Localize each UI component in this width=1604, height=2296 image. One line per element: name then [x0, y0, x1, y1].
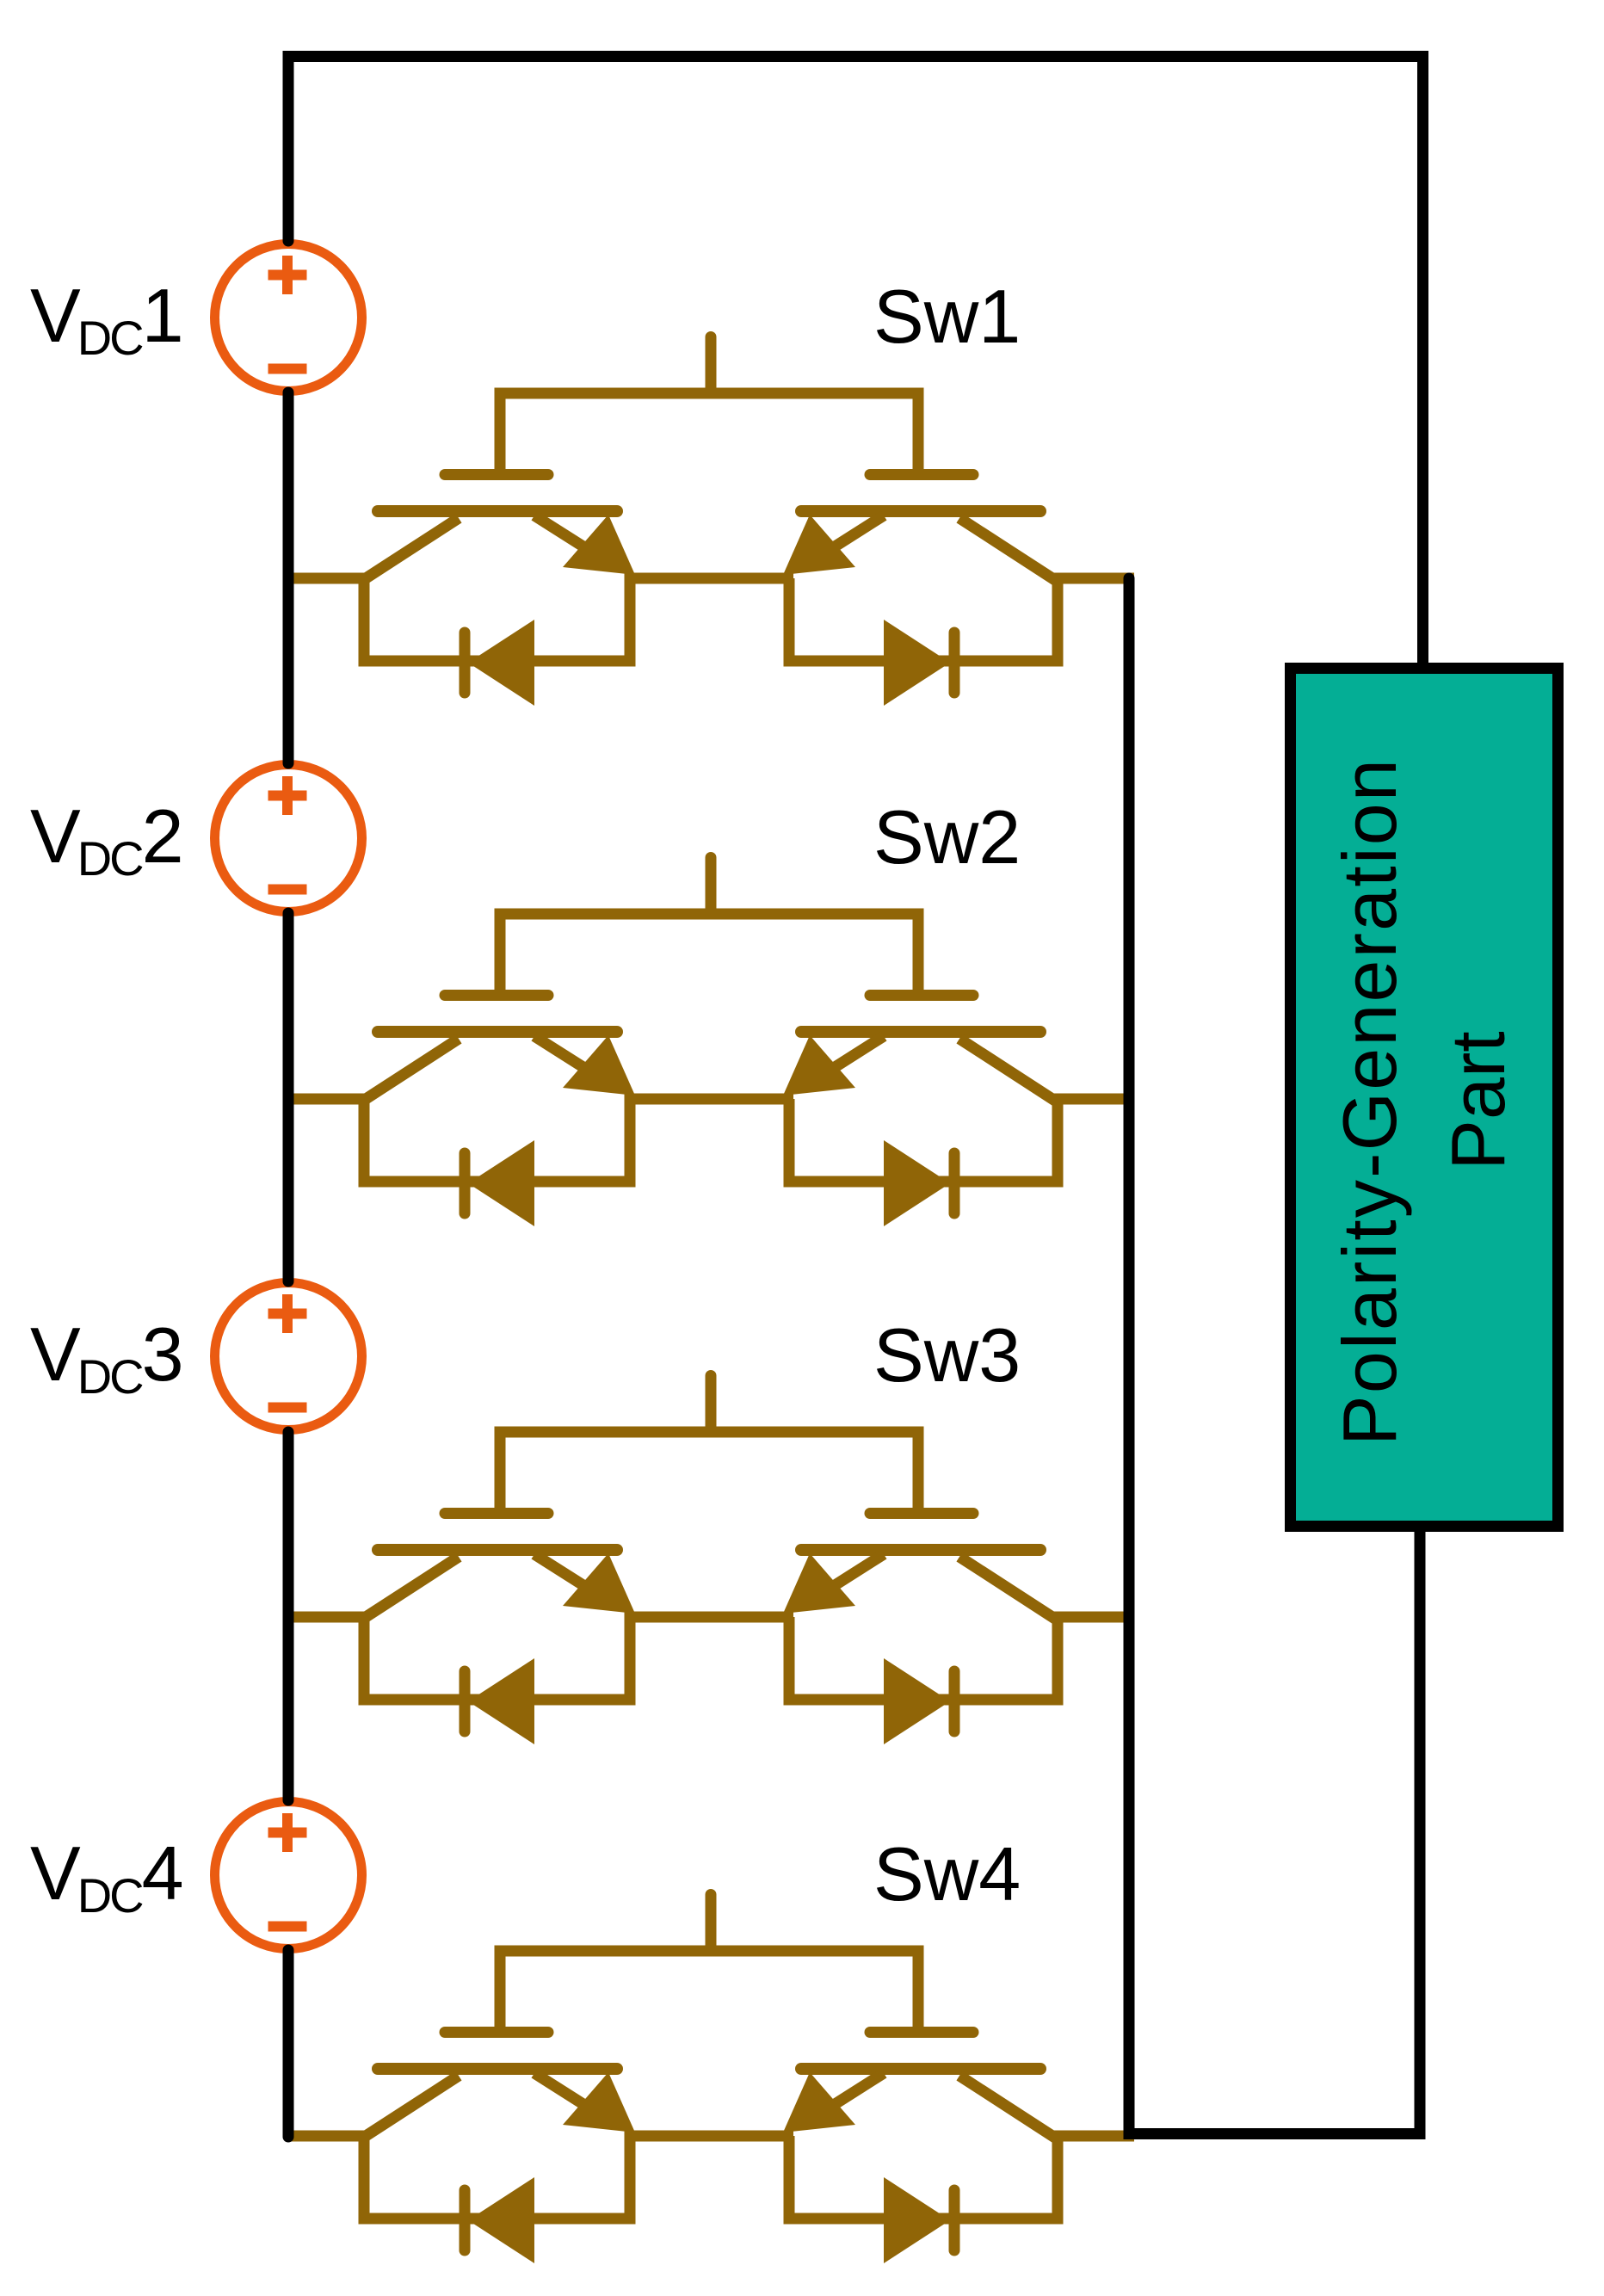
wire: switch output bus down, bottom run, and riser to Polarity box bottom [1129, 578, 1420, 2134]
Sw1 right diode D1b cathode bar [949, 633, 960, 693]
Sw4 left IGBT gate plate [445, 2027, 548, 2038]
Sw3 left diode D3a cathode bar [460, 1671, 471, 1731]
voltage source VDC3 circle [215, 1283, 362, 1430]
Sw2 right IGBT collector lead [959, 1039, 1055, 1101]
Sw4 right IGBT body bar [801, 2063, 1040, 2075]
Sw1 right diode D1b triangle [884, 620, 950, 706]
Sw2 left IGBT body bar [378, 1026, 617, 1038]
svg-text:Part: Part [1435, 1031, 1521, 1170]
Sw3 wire: right diode loop and stub to output bus [789, 1617, 1134, 1700]
Sw4 left diode D4a triangle [468, 2177, 534, 2263]
Sw4 right IGBT emitter lead [820, 2073, 884, 2114]
Sw2 left diode D2a triangle [468, 1140, 534, 1226]
Sw1 wire: right diode loop and stub to output bus [789, 578, 1134, 661]
Sw3 right IGBT gate plate [870, 1508, 973, 1519]
Sw2 right IGBT body bar [801, 1026, 1040, 1038]
Sw2 wire: right diode loop and stub to output bus [789, 1099, 1134, 1182]
Sw1 wire: left node to rail, left diode loop and emitter link [288, 578, 793, 661]
block: Polarity-Generation Part (teal rectangle) [1291, 669, 1558, 1527]
Sw4 right IGBT collector lead [959, 2076, 1055, 2138]
voltage source VDC4 minus sign [268, 1922, 307, 1932]
Sw1 right IGBT collector lead [959, 518, 1055, 580]
Sw4 gate bus with end drops [500, 1951, 918, 2028]
svg-text:Polarity-Generation: Polarity-Generation [1327, 757, 1412, 1446]
wire: left rail segment between VDC1 and VDC2 [283, 392, 294, 763]
Sw3 right diode D3b triangle [884, 1658, 950, 1744]
wire: left rail segment between VDC2 and VDC3 [283, 913, 294, 1281]
Sw1 left IGBT collector lead [363, 518, 459, 580]
voltage source VDC1 plus sign [268, 256, 307, 294]
Sw4 right IGBT gate plate [870, 2027, 973, 2038]
Sw2 right IGBT emitter lead [820, 1036, 884, 1077]
voltage source VDC2 plus sign [268, 776, 307, 815]
Sw1 left diode D1a triangle [468, 620, 534, 706]
Sw1 gate stem [706, 337, 717, 392]
wire: left rail segment below VDC4 to Sw4 node [283, 1950, 294, 2137]
Sw4 left IGBT collector lead [363, 2076, 459, 2138]
Sw1 gate bus with end drops [500, 393, 918, 471]
svg-text:Sw2: Sw2 [873, 794, 1021, 880]
svg-text:Sw1: Sw1 [873, 274, 1021, 359]
Sw3 gate bus with end drops [500, 1432, 918, 1509]
Sw4 wire: right diode loop and stub to output bus [789, 2136, 1134, 2219]
Sw2 left IGBT emitter arrow [563, 1035, 635, 1096]
Sw2 left IGBT collector lead [363, 1039, 459, 1101]
Sw1 left IGBT emitter arrow [563, 515, 635, 575]
voltage source VDC4 circle [215, 1802, 362, 1949]
Sw4 left IGBT body bar [378, 2063, 617, 2075]
Sw3 right IGBT emitter lead [820, 1554, 884, 1595]
Sw2 right diode D2b triangle [884, 1140, 950, 1226]
Sw2 right IGBT gate plate [870, 990, 973, 1001]
Sw2 right IGBT emitter arrow [783, 1035, 855, 1096]
Sw1 left diode D1a cathode bar [460, 633, 471, 693]
Sw3 left IGBT emitter arrow [563, 1553, 635, 1614]
voltage source VDC1 circle [215, 244, 362, 392]
Sw2 gate stem [706, 858, 717, 912]
Sw4 right diode D4b cathode bar [949, 2190, 960, 2250]
Sw1 right IGBT emitter arrow [783, 515, 855, 575]
Sw2 gate bus with end drops [500, 914, 918, 991]
Sw2 left IGBT gate plate [445, 990, 548, 1001]
svg-text:VDC2: VDC2 [30, 793, 184, 886]
Sw2 left diode D2a cathode bar [460, 1153, 471, 1213]
Sw3 wire: left node to rail, left diode loop and emitter link [288, 1617, 793, 1700]
Sw3 right diode D3b cathode bar [949, 1671, 960, 1731]
Sw4 left IGBT emitter arrow [563, 2072, 635, 2132]
svg-text:Sw4: Sw4 [873, 1831, 1021, 1916]
voltage source VDC2 circle [215, 765, 362, 912]
Sw3 left IGBT gate plate [445, 1508, 548, 1519]
Sw2 right diode D2b cathode bar [949, 1153, 960, 1213]
voltage source VDC1 minus sign [268, 364, 307, 374]
Sw1 right IGBT gate plate [870, 469, 973, 480]
Sw2 left IGBT emitter lead [534, 1036, 598, 1077]
wire: left rail segment between VDC3 and VDC4 [283, 1432, 294, 1800]
Sw3 gate stem [706, 1376, 717, 1430]
Sw4 right diode D4b triangle [884, 2177, 950, 2263]
voltage source VDC3 minus sign [268, 1403, 307, 1413]
Sw1 left IGBT gate plate [445, 469, 548, 480]
svg-text:VDC3: VDC3 [30, 1312, 184, 1404]
svg-text:VDC1: VDC1 [30, 273, 184, 365]
Sw3 left IGBT collector lead [363, 1557, 459, 1619]
Sw3 right IGBT emitter arrow [783, 1553, 855, 1614]
Sw2 wire: left node to rail, left diode loop and emitter link [288, 1099, 793, 1182]
Sw1 left IGBT emitter lead [534, 515, 598, 556]
Sw3 left diode D3a triangle [468, 1658, 534, 1744]
Sw1 right IGBT emitter lead [820, 515, 884, 556]
Sw1 right IGBT body bar [801, 505, 1040, 517]
svg-text:Sw3: Sw3 [873, 1312, 1021, 1398]
Sw4 gate stem [706, 1895, 717, 1949]
wire: top bus from left rail to right rail down to Polarity box top [288, 57, 1423, 663]
Sw1 left IGBT body bar [378, 505, 617, 517]
Sw4 left IGBT emitter lead [534, 2073, 598, 2114]
Sw4 wire: left node to rail, left diode loop and emitter link [288, 2136, 793, 2219]
Sw4 right IGBT emitter arrow [783, 2072, 855, 2132]
Sw3 right IGBT body bar [801, 1544, 1040, 1556]
Sw3 left IGBT body bar [378, 1544, 617, 1556]
Sw3 right IGBT collector lead [959, 1557, 1055, 1619]
Sw3 left IGBT emitter lead [534, 1554, 598, 1595]
voltage source VDC3 plus sign [268, 1294, 307, 1333]
voltage source VDC2 minus sign [268, 885, 307, 895]
svg-text:VDC4: VDC4 [30, 1830, 184, 1923]
voltage source VDC4 plus sign [268, 1813, 307, 1852]
Sw4 left diode D4a cathode bar [460, 2190, 471, 2250]
